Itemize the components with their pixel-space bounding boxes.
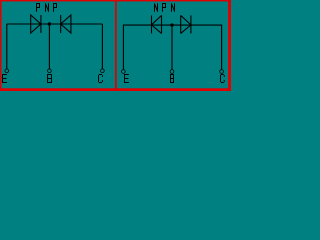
diode D4 NPN B-C cathode bar bbox=[190, 15, 192, 33]
label B terminal NPN bbox=[171, 74, 174, 83]
label N of PNP header bbox=[46, 3, 49, 12]
label E terminal PNP bbox=[3, 74, 7, 83]
PNP base wire bbox=[48, 24, 50, 69]
PNP top wire E-to-C bbox=[7, 23, 103, 25]
diode D3 NPN B-E cathode bar bbox=[151, 15, 153, 33]
label P of PNP header bbox=[37, 3, 41, 12]
terminal C NPN open circle bbox=[220, 70, 224, 74]
node B junction dot PNP bbox=[48, 22, 51, 25]
label E terminal NPN bbox=[125, 74, 129, 83]
label B terminal PNP bbox=[48, 74, 52, 83]
terminal E PNP open circle bbox=[5, 69, 9, 73]
diode D4 NPN B-C triangle bbox=[181, 15, 191, 33]
terminal B PNP open circle bbox=[48, 69, 52, 73]
PNP collector wire bbox=[101, 24, 103, 69]
diode D1 PNP cathode bar bbox=[40, 15, 42, 33]
diode D2 PNP C-B triangle bbox=[61, 15, 71, 33]
terminal C PNP open circle bbox=[101, 69, 105, 73]
NPN top wire E-to-C bbox=[123, 24, 221, 26]
NPN emitter wire bbox=[122, 25, 124, 70]
diode D1 PNP E-B triangle bbox=[31, 15, 41, 33]
terminal E NPN open circle bbox=[122, 70, 126, 74]
label P of NPN header bbox=[163, 3, 167, 12]
NPN base wire bbox=[171, 25, 173, 70]
red frame left panel border bbox=[0, 0, 231, 91]
label C terminal NPN bbox=[221, 75, 225, 83]
PNP emitter wire bbox=[6, 24, 8, 69]
diode D3 NPN B-E triangle bbox=[152, 15, 162, 33]
label N of NPN header bbox=[155, 3, 158, 12]
node B junction dot NPN bbox=[170, 23, 173, 26]
diode D2 PNP C-B cathode bar bbox=[60, 15, 62, 33]
label C terminal PNP bbox=[99, 75, 103, 83]
label P of PNP header bbox=[54, 3, 58, 12]
label N of NPN header bbox=[172, 3, 175, 12]
NPN collector wire bbox=[221, 25, 223, 70]
terminal B NPN open circle bbox=[170, 70, 174, 74]
